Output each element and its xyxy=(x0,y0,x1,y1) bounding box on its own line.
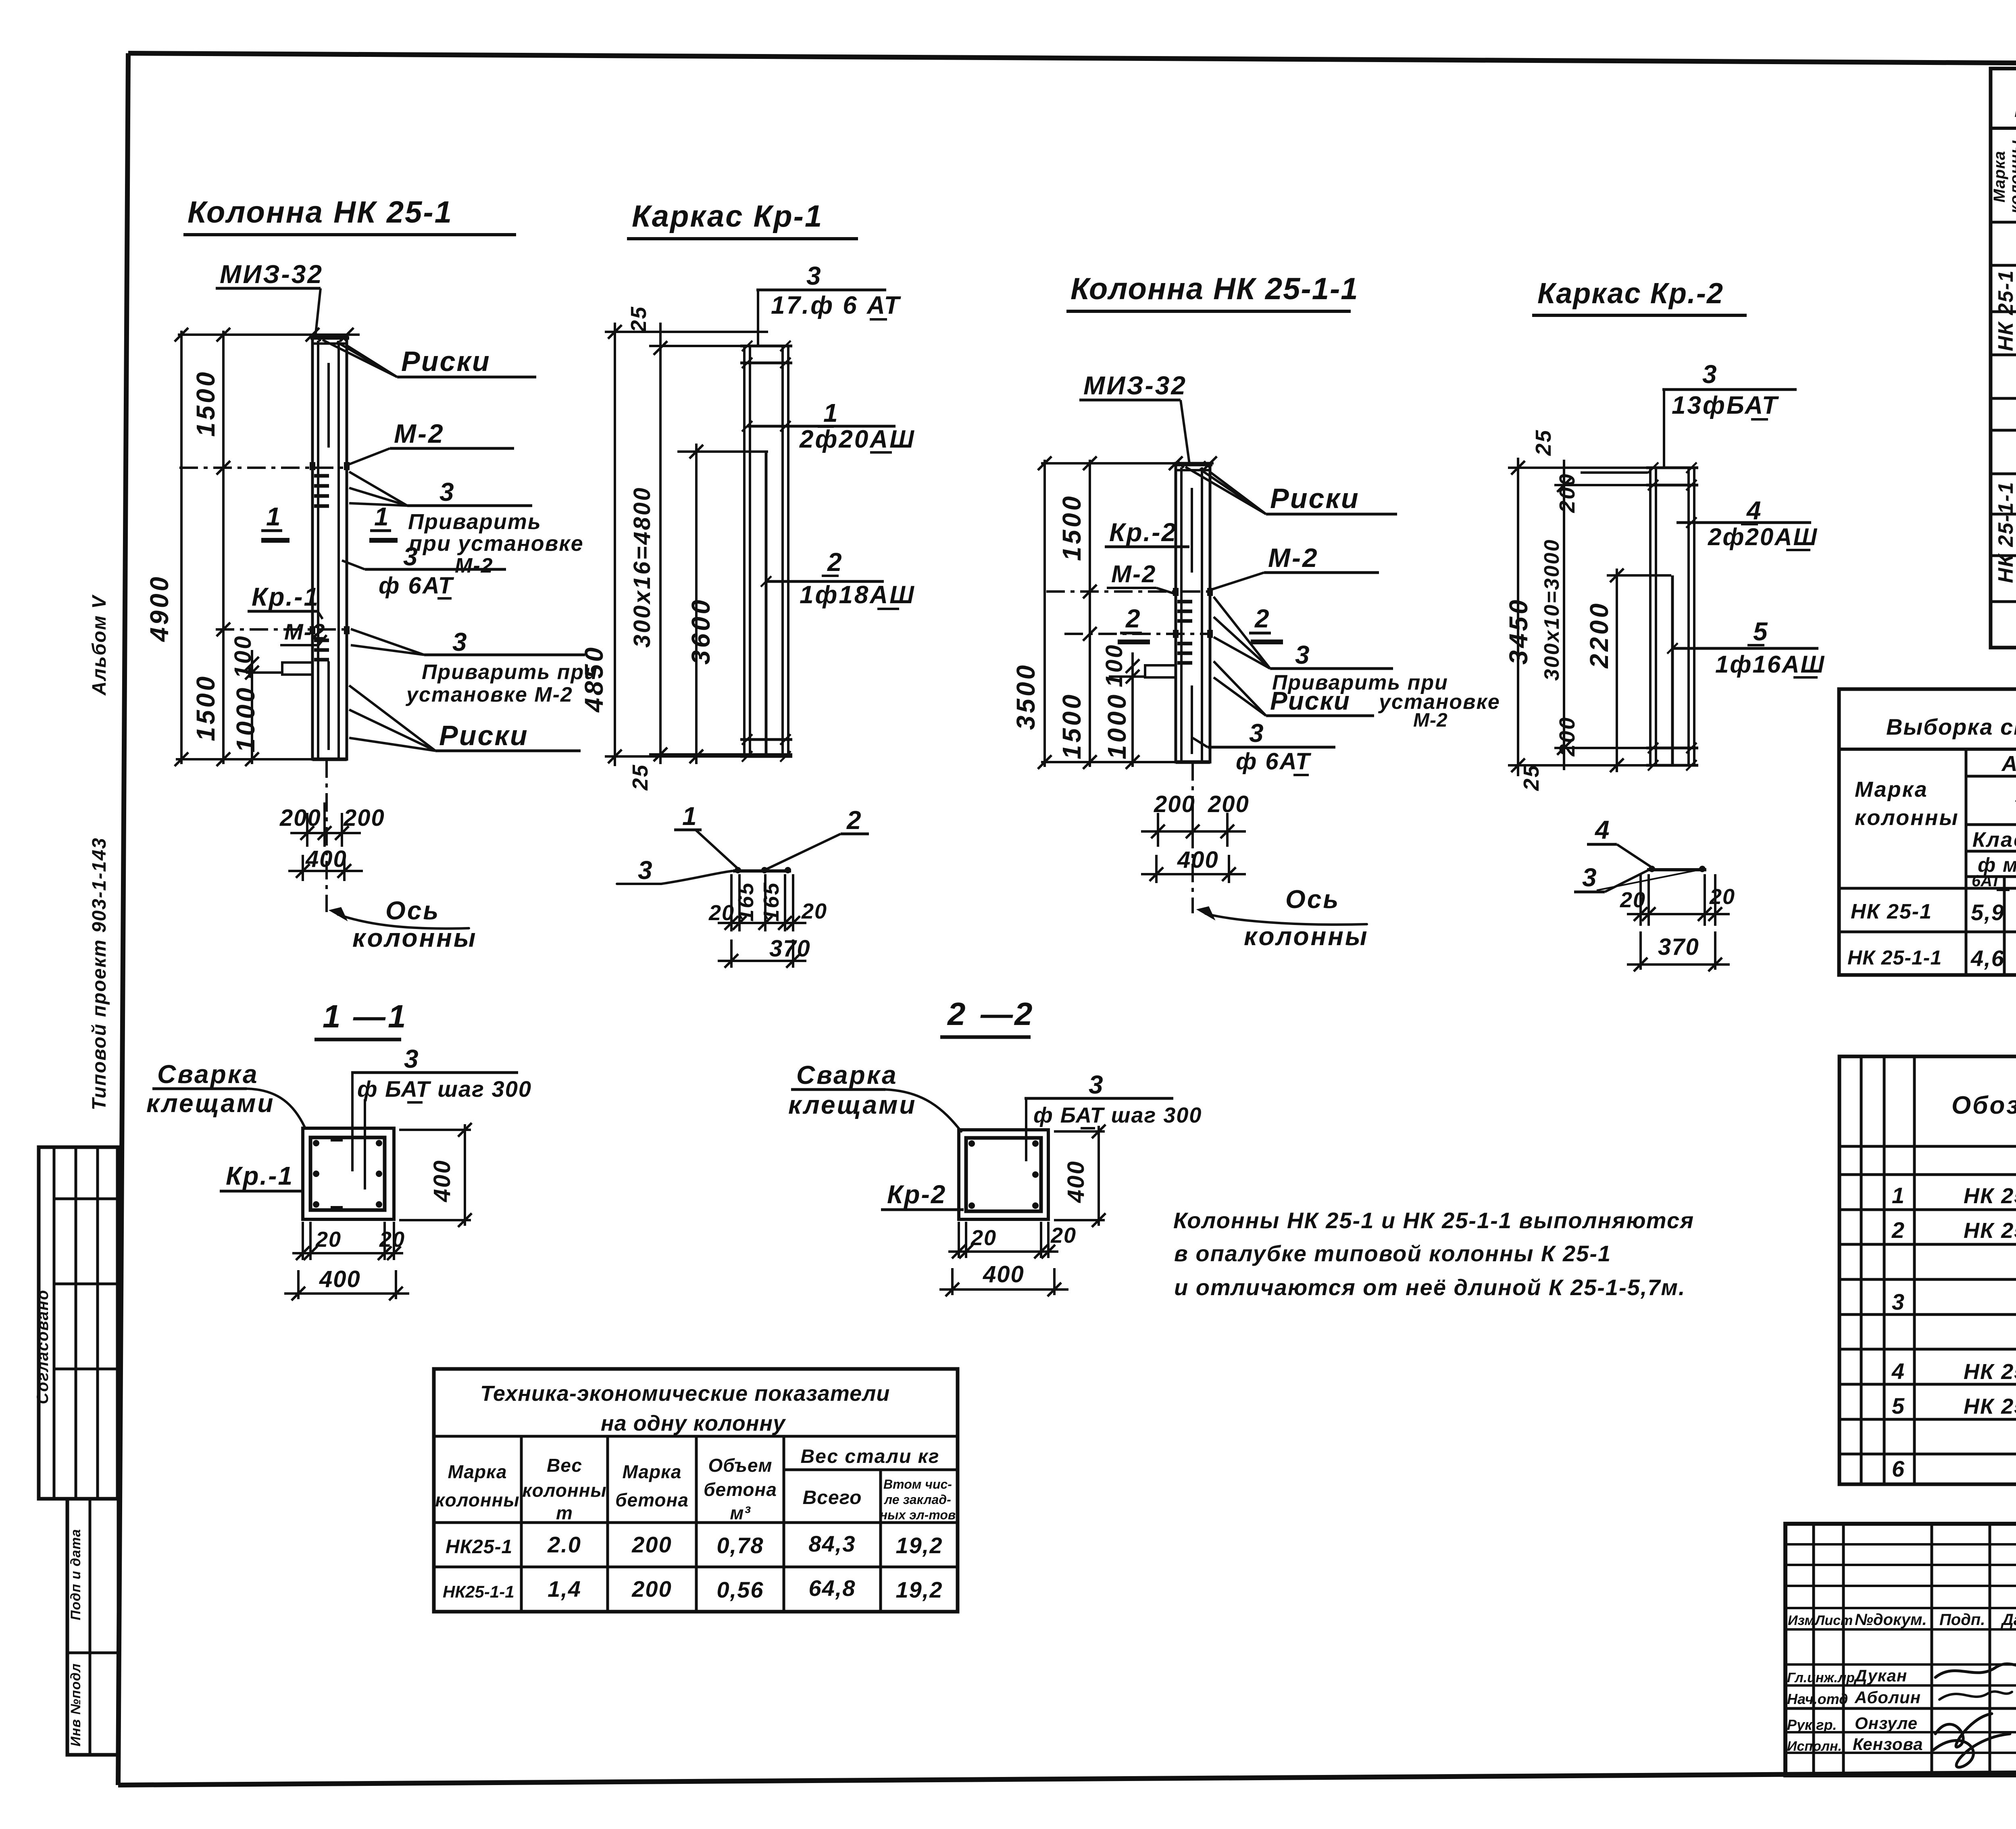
svg-text:400: 400 xyxy=(319,1266,361,1292)
svg-text:19,2: 19,2 xyxy=(896,1533,943,1558)
svg-text:3: 3 xyxy=(403,542,419,571)
svg-text:колонны: колонны xyxy=(1244,922,1369,951)
svg-text:4: 4 xyxy=(1594,815,1610,844)
svg-text:НК 25-1-1: НК 25-1-1 xyxy=(1964,1394,2016,1419)
svg-text:колонны: колонны xyxy=(1855,806,1959,830)
svg-text:1000: 1000 xyxy=(1102,692,1131,759)
section 2-2 rebar dots xyxy=(968,1140,975,1147)
svg-text:1000: 1000 xyxy=(231,685,260,752)
svg-text:на одну колонну: на одну колонну xyxy=(601,1411,786,1435)
svg-text:200: 200 xyxy=(343,805,385,831)
table TEP outer box xyxy=(434,1369,958,1612)
column NK25-1 side stub xyxy=(282,662,312,675)
svg-text:20: 20 xyxy=(971,1226,997,1250)
svg-text:2: 2 xyxy=(1125,604,1141,633)
svg-text:НК 25-1-1: НК 25-1-1 xyxy=(1847,946,1942,969)
svg-text:ф 6АТ: ф 6АТ xyxy=(1236,748,1312,775)
svg-text:3: 3 xyxy=(1295,640,1310,669)
svg-text:МИЗ-32: МИЗ-32 xyxy=(220,260,323,289)
svg-text:Приварить при: Приварить при xyxy=(422,660,598,684)
svg-text:400: 400 xyxy=(983,1261,1025,1287)
dim line 1000 and 100 xyxy=(251,650,253,764)
column NK25-1-1 axis line below xyxy=(1191,762,1194,913)
svg-text:400: 400 xyxy=(429,1159,455,1202)
svg-text:ф БАТ шаг 300: ф БАТ шаг 300 xyxy=(357,1076,532,1102)
svg-text:400: 400 xyxy=(305,846,347,872)
svg-text:Подп.: Подп. xyxy=(1939,1611,1985,1629)
svg-text:20: 20 xyxy=(1050,1223,1077,1248)
svg-text:2: 2 xyxy=(947,996,966,1032)
svg-text:3: 3 xyxy=(1892,1289,1905,1314)
section 1-1 stirrup xyxy=(310,1137,385,1210)
svg-text:Типовой проект 903-1-143: Типовой проект 903-1-143 xyxy=(89,837,110,1110)
table spec verticals xyxy=(1860,1056,1863,1484)
svg-text:НК25-1-1: НК25-1-1 xyxy=(443,1582,514,1601)
svg-text:2200: 2200 xyxy=(1585,601,1614,669)
svg-text:Лист: Лист xyxy=(1814,1613,1853,1628)
dim extensions column NK25-1-1 xyxy=(1041,462,1214,465)
svg-text:НК 25-1: НК 25-1 xyxy=(1994,270,2016,351)
Kr-1 dim extensions xyxy=(605,331,768,333)
svg-text:2: 2 xyxy=(1254,604,1270,633)
table Vyborka outer box xyxy=(1839,689,2016,975)
svg-text:3: 3 xyxy=(404,1044,419,1073)
svg-text:Инв №подл: Инв №подл xyxy=(68,1663,83,1747)
svg-text:НК 25-1: НК 25-1 xyxy=(1851,900,1932,923)
left stamp inv table xyxy=(67,1499,119,1755)
Kr-2 section sketch bar xyxy=(1647,868,1706,871)
svg-text:Рук.гр.: Рук.гр. xyxy=(1787,1717,1837,1733)
dim line 4900 xyxy=(180,331,183,764)
svg-text:и отличаются от неё длиной К 2: и отличаются от неё длиной К 25-1-5,7м. xyxy=(1174,1275,1686,1300)
svg-text:Подп и дата: Подп и дата xyxy=(68,1529,83,1621)
svg-text:1,4: 1,4 xyxy=(548,1576,581,1602)
svg-text:25: 25 xyxy=(628,764,652,791)
svg-text:в опалубке типовой колонны К: в опалубке типовой колонны К 25-1 xyxy=(1174,1241,1611,1266)
svg-text:4,6: 4,6 xyxy=(1970,946,2005,971)
table Vedomost horizontals xyxy=(1991,221,2016,224)
svg-text:4900: 4900 xyxy=(145,575,174,642)
svg-text:3: 3 xyxy=(452,627,468,656)
svg-text:Дукан: Дукан xyxy=(1854,1666,1907,1685)
table spec horizontals xyxy=(1839,1145,2016,1148)
svg-text:3: 3 xyxy=(638,856,653,885)
svg-text:установке М-2: установке М-2 xyxy=(405,683,573,706)
svg-text:5: 5 xyxy=(1753,617,1768,646)
bottom dims 200 200 of NK25-1-1 xyxy=(1157,813,1159,847)
frame Kr-1 rungs xyxy=(740,345,792,348)
svg-text:М-2: М-2 xyxy=(1268,543,1319,573)
svg-text:1: 1 xyxy=(823,398,839,427)
svg-text:при установке: при установке xyxy=(409,531,584,556)
Kr-2 dim 2200 xyxy=(1616,569,1618,772)
svg-text:1500: 1500 xyxy=(1057,692,1086,759)
Kr-1 section sketch bars xyxy=(733,869,791,873)
column NK25-1 weld marks lower xyxy=(314,639,329,642)
section 1-1 dim 400 bottom xyxy=(297,1270,300,1299)
svg-text:1500: 1500 xyxy=(191,370,220,437)
svg-text:ных эл-тов: ных эл-тов xyxy=(880,1508,956,1522)
column NK25-1-1 M-2 plates xyxy=(1173,588,1179,596)
table TEP grid xyxy=(520,1436,523,1612)
svg-text:М-2: М-2 xyxy=(1111,560,1156,587)
title block left grid verticals xyxy=(1812,1524,1815,1775)
svg-text:МИЗ-32: МИЗ-32 xyxy=(1083,371,1187,400)
frame Kr-2 right bar xyxy=(1687,468,1690,765)
svg-text:200: 200 xyxy=(631,1576,672,1602)
frame Kr-2 rungs xyxy=(1646,467,1698,469)
svg-text:Марка: Марка xyxy=(1855,777,1928,802)
left stamp approvals table xyxy=(39,1147,118,1499)
svg-text:200: 200 xyxy=(279,805,321,831)
svg-text:Онзуле: Онзуле xyxy=(1855,1714,1918,1733)
svg-text:ф БАТ шаг 300: ф БАТ шаг 300 xyxy=(1033,1103,1202,1127)
svg-text:84,3: 84,3 xyxy=(809,1531,856,1556)
svg-text:НК 25-1: НК 25-1 xyxy=(1964,1184,2016,1208)
svg-text:Марка: Марка xyxy=(622,1461,681,1482)
svg-text:1ф16АШ: 1ф16АШ xyxy=(1715,651,1825,678)
section 2-2 dim 400 right xyxy=(1054,1130,1105,1133)
svg-text:2: 2 xyxy=(846,806,862,835)
svg-text:Техника-экономические показате: Техника-экономические показатели xyxy=(480,1381,890,1406)
dim line 1500 segments xyxy=(222,331,225,764)
section 1-1 dim 400 right xyxy=(399,1129,471,1131)
svg-text:1: 1 xyxy=(323,998,342,1034)
svg-text:клещами: клещами xyxy=(146,1089,275,1118)
table spec outer box xyxy=(1839,1056,2016,1484)
column NK25-1 weld marks upper xyxy=(314,474,329,478)
svg-text:1500: 1500 xyxy=(191,674,220,741)
Kr-2 dim 300x10=3000 xyxy=(1563,460,1565,770)
svg-text:3: 3 xyxy=(1582,863,1597,892)
svg-text:—: — xyxy=(980,996,1014,1032)
dim extension lines column NK25-1 xyxy=(178,333,360,336)
svg-text:20: 20 xyxy=(801,899,827,923)
svg-text:165: 165 xyxy=(734,881,758,921)
Kr-1 dim 3600 xyxy=(695,444,698,764)
svg-text:200: 200 xyxy=(1208,791,1250,817)
svg-text:4: 4 xyxy=(1746,496,1762,525)
section 2-2 stirrup xyxy=(966,1138,1041,1211)
svg-text:Колонны НК 25-1 и НК 25-1-1: Колонны НК 25-1 и НК 25-1-1 выполняются xyxy=(1173,1208,1694,1233)
svg-text:Дата: Дата xyxy=(2001,1611,2016,1629)
svg-text:Выборка стали на одну коло: Выборка стали на одну колонну (кг) xyxy=(1886,714,2016,740)
svg-text:3: 3 xyxy=(1702,360,1718,389)
svg-text:5,9: 5,9 xyxy=(1971,900,2005,925)
svg-text:колонны: колонны xyxy=(435,1489,519,1510)
svg-text:Гл.инж.лр: Гл.инж.лр xyxy=(1787,1670,1855,1685)
svg-text:Ведомость стержней на 1 коло: Ведомость стержней на 1 колонну xyxy=(2014,95,2016,122)
svg-text:М-2: М-2 xyxy=(1413,710,1448,731)
svg-text:Сварка: Сварка xyxy=(796,1060,898,1089)
svg-text:Исполн.: Исполн. xyxy=(1787,1739,1842,1754)
svg-text:3: 3 xyxy=(1249,719,1264,748)
section 2-2 dims 20 20 bottom xyxy=(958,1222,960,1258)
svg-text:2: 2 xyxy=(827,548,843,577)
svg-text:НК 25-1-1: НК 25-1-1 xyxy=(1994,481,2016,583)
table Vyborka horizontals xyxy=(1839,748,2016,751)
svg-text:Каркас Кр.-2: Каркас Кр.-2 xyxy=(1537,277,1724,310)
svg-text:Кр.-1: Кр.-1 xyxy=(226,1161,294,1190)
svg-text:М-2: М-2 xyxy=(455,554,494,577)
svg-text:3500: 3500 xyxy=(1011,663,1040,730)
svg-text:165: 165 xyxy=(759,881,783,921)
Kr-2 dim extensions xyxy=(1508,467,1649,469)
column NK25-1 top cap xyxy=(310,336,349,340)
column NK25-1-1 bottom edge xyxy=(1176,760,1210,764)
svg-text:бетона: бетона xyxy=(704,1479,777,1500)
svg-text:2ф20АШ: 2ф20АШ xyxy=(1708,523,1818,550)
svg-text:3: 3 xyxy=(1089,1070,1104,1099)
svg-text:Кензова: Кензова xyxy=(1853,1735,1923,1754)
svg-text:19,2: 19,2 xyxy=(896,1577,943,1602)
svg-text:Каркас Кр-1: Каркас Кр-1 xyxy=(632,199,823,233)
Kr-2 sketch dims 20 20 xyxy=(1639,874,1642,926)
svg-text:400: 400 xyxy=(1177,847,1219,873)
svg-text:1: 1 xyxy=(374,502,389,531)
svg-text:1: 1 xyxy=(1892,1183,1905,1208)
svg-text:колонны: колонны xyxy=(522,1480,606,1501)
svg-text:0,78: 0,78 xyxy=(717,1533,764,1558)
svg-text:Альбом V: Альбом V xyxy=(89,594,110,696)
svg-text:Кр.-1: Кр.-1 xyxy=(252,582,319,611)
column NK25-1 M-2 plate top xyxy=(310,462,315,470)
svg-text:бетона: бетона xyxy=(615,1489,689,1510)
svg-text:Марка: Марка xyxy=(1991,151,2008,203)
section 2-2 dim 400 bottom xyxy=(951,1268,954,1295)
svg-text:Риски: Риски xyxy=(401,346,491,377)
column NK25-1-1 weld marks xyxy=(1177,600,1192,604)
svg-text:2: 2 xyxy=(1014,996,1033,1032)
svg-text:20: 20 xyxy=(708,901,735,925)
svg-text:НК 25-1-1: НК 25-1-1 xyxy=(1964,1360,2016,1384)
Kr-2 sketch dim 370 xyxy=(1639,931,1642,970)
svg-text:Вес: Вес xyxy=(547,1455,582,1476)
svg-text:Приварить: Приварить xyxy=(408,510,541,534)
svg-text:Всего: Всего xyxy=(803,1487,862,1508)
svg-text:1: 1 xyxy=(682,802,698,831)
svg-text:2ф20АШ: 2ф20АШ xyxy=(799,425,916,453)
svg-text:1: 1 xyxy=(266,502,281,531)
svg-text:—: — xyxy=(353,998,386,1034)
bottom dim 400 of NK25-1 xyxy=(302,855,304,881)
svg-text:Согласовано: Согласовано xyxy=(34,1289,52,1404)
svg-text:Риски: Риски xyxy=(439,720,529,751)
svg-text:колонны: колонны xyxy=(2007,140,2016,214)
bottom dims 200 200 of NK25-1 xyxy=(306,813,308,847)
svg-text:400: 400 xyxy=(1063,1160,1089,1203)
svg-text:200: 200 xyxy=(1154,791,1195,817)
dim lines 1500 1500 column 2 xyxy=(1089,460,1091,767)
svg-text:300х16=4800: 300х16=4800 xyxy=(629,486,655,648)
svg-text:25: 25 xyxy=(1531,429,1556,456)
svg-text:20: 20 xyxy=(315,1227,342,1252)
svg-text:клещами: клещами xyxy=(788,1090,916,1119)
svg-text:Арматурные изделия: Арматурные изделия xyxy=(2001,752,2016,776)
svg-text:200: 200 xyxy=(1555,473,1579,513)
svg-text:64,8: 64,8 xyxy=(809,1575,856,1601)
svg-text:2: 2 xyxy=(1891,1217,1905,1243)
svg-text:25: 25 xyxy=(1519,764,1543,791)
frame Kr-1 left bar xyxy=(743,346,746,756)
section 1-1 rebar dots xyxy=(313,1140,319,1146)
bottom dim 400 of NK25-1-1 xyxy=(1155,855,1158,883)
svg-text:5: 5 xyxy=(1892,1393,1905,1419)
drawing frame border xyxy=(128,53,2016,66)
column NK25-1 M-2 plate lower xyxy=(310,626,315,634)
section 1-1 dims 20 20 bottom xyxy=(302,1222,304,1260)
svg-text:4: 4 xyxy=(1891,1358,1905,1384)
svg-text:100: 100 xyxy=(1101,644,1127,687)
svg-text:Риски: Риски xyxy=(1270,483,1360,514)
svg-text:370: 370 xyxy=(769,935,811,962)
svg-text:6: 6 xyxy=(1892,1456,1905,1481)
svg-text:Обозначение: Обозначение xyxy=(1951,1092,2016,1119)
table Vyborka verticals xyxy=(1965,749,1968,975)
column NK25-1 body outline xyxy=(312,337,347,759)
svg-text:ф 6АТ: ф 6АТ xyxy=(379,573,454,599)
svg-text:№докум.: №докум. xyxy=(1855,1611,1927,1629)
frame Kr-2 left bar xyxy=(1649,468,1652,765)
svg-text:М-2: М-2 xyxy=(394,419,445,448)
svg-text:Марка: Марка xyxy=(448,1461,507,1482)
frame Kr-1 middle bar pos2 xyxy=(765,452,768,756)
svg-text:Кр.-2: Кр.-2 xyxy=(1109,518,1177,547)
title block outer box xyxy=(1785,1524,2016,1775)
svg-text:М-2: М-2 xyxy=(284,619,325,644)
svg-text:3600: 3600 xyxy=(686,598,715,665)
Kr-1 sketch dim 370 xyxy=(730,939,733,968)
svg-text:20: 20 xyxy=(1620,888,1646,912)
svg-text:Объем: Объем xyxy=(708,1455,772,1476)
table Vedomost outer box xyxy=(1991,69,2016,648)
svg-text:НК 25-1: НК 25-1 xyxy=(1964,1219,2016,1243)
svg-text:2.0: 2.0 xyxy=(547,1532,581,1557)
svg-text:3: 3 xyxy=(806,261,822,290)
dim line 1000 100 column 2 xyxy=(1131,652,1134,767)
svg-text:17.ф 6 АТ: 17.ф 6 АТ xyxy=(771,292,901,319)
svg-text:3: 3 xyxy=(439,477,455,506)
svg-text:НК25-1: НК25-1 xyxy=(446,1536,512,1558)
svg-text:200: 200 xyxy=(1555,716,1579,756)
section 2-2 outer square xyxy=(959,1130,1048,1219)
section 1-1 outer square xyxy=(303,1128,394,1219)
svg-text:Вес стали кг: Вес стали кг xyxy=(800,1446,939,1467)
svg-text:Сварка: Сварка xyxy=(157,1060,259,1089)
dim line 3500 xyxy=(1043,460,1046,767)
svg-text:370: 370 xyxy=(1658,934,1699,960)
svg-text:Колонна НК 25-1: Колонна НК 25-1 xyxy=(187,195,453,229)
svg-text:Ось: Ось xyxy=(1285,885,1340,914)
svg-text:Нач.отд: Нач.отд xyxy=(1787,1691,1848,1707)
svg-text:1: 1 xyxy=(388,998,407,1034)
svg-text:300х10=3000: 300х10=3000 xyxy=(1540,539,1564,681)
svg-text:ле заклад-: ле заклад- xyxy=(883,1492,951,1507)
column NK25-1-1 body outline xyxy=(1176,463,1210,762)
svg-text:Класс А Т: Класс А Т xyxy=(1972,828,2016,852)
svg-text:Риски: Риски xyxy=(1270,686,1350,715)
column NK25-1-1 side stub xyxy=(1145,665,1176,677)
Kr-1 dim 300x16=4800 xyxy=(659,323,662,764)
Kr-1 sketch dims 20 165 165 20 xyxy=(730,874,733,931)
svg-text:100: 100 xyxy=(230,635,256,679)
frame Kr-1 right bar xyxy=(781,346,784,756)
svg-text:Изм: Изм xyxy=(1788,1613,1815,1628)
title block signatures xyxy=(1935,1663,2016,1677)
column NK25-1 bottom edge xyxy=(312,758,347,761)
Kr-1 dim 4850 xyxy=(614,323,616,766)
svg-text:Колонна НК 25-1-1: Колонна НК 25-1-1 xyxy=(1070,272,1359,306)
column NK25-1-1 top cap xyxy=(1174,463,1212,467)
svg-text:4850: 4850 xyxy=(579,645,608,713)
svg-text:3450: 3450 xyxy=(1504,598,1533,665)
title block left grid horizontals xyxy=(1785,1543,2016,1546)
svg-text:20: 20 xyxy=(379,1227,405,1252)
svg-text:1ф18АШ: 1ф18АШ xyxy=(800,581,916,609)
frame Kr-2 middle bar pos5 xyxy=(1671,575,1674,765)
svg-text:200: 200 xyxy=(631,1532,672,1557)
svg-text:6АТ: 6АТ xyxy=(1972,872,2002,890)
svg-text:20: 20 xyxy=(1709,885,1735,909)
svg-text:25: 25 xyxy=(627,306,651,333)
svg-text:Кр-2: Кр-2 xyxy=(887,1180,946,1209)
Kr-2 dim 3450 xyxy=(1517,458,1519,776)
svg-text:1500: 1500 xyxy=(1057,494,1086,561)
svg-text:Аболин: Аболин xyxy=(1854,1688,1921,1707)
svg-text:0,56: 0,56 xyxy=(717,1577,764,1602)
column NK25-1 axis line below xyxy=(325,759,328,912)
svg-text:13фБАТ: 13фБАТ xyxy=(1672,392,1779,419)
svg-text:Втом чис-: Втом чис- xyxy=(883,1477,952,1492)
svg-text:Ось: Ось xyxy=(385,896,440,925)
svg-text:т: т xyxy=(556,1502,573,1523)
svg-text:м³: м³ xyxy=(730,1502,751,1523)
